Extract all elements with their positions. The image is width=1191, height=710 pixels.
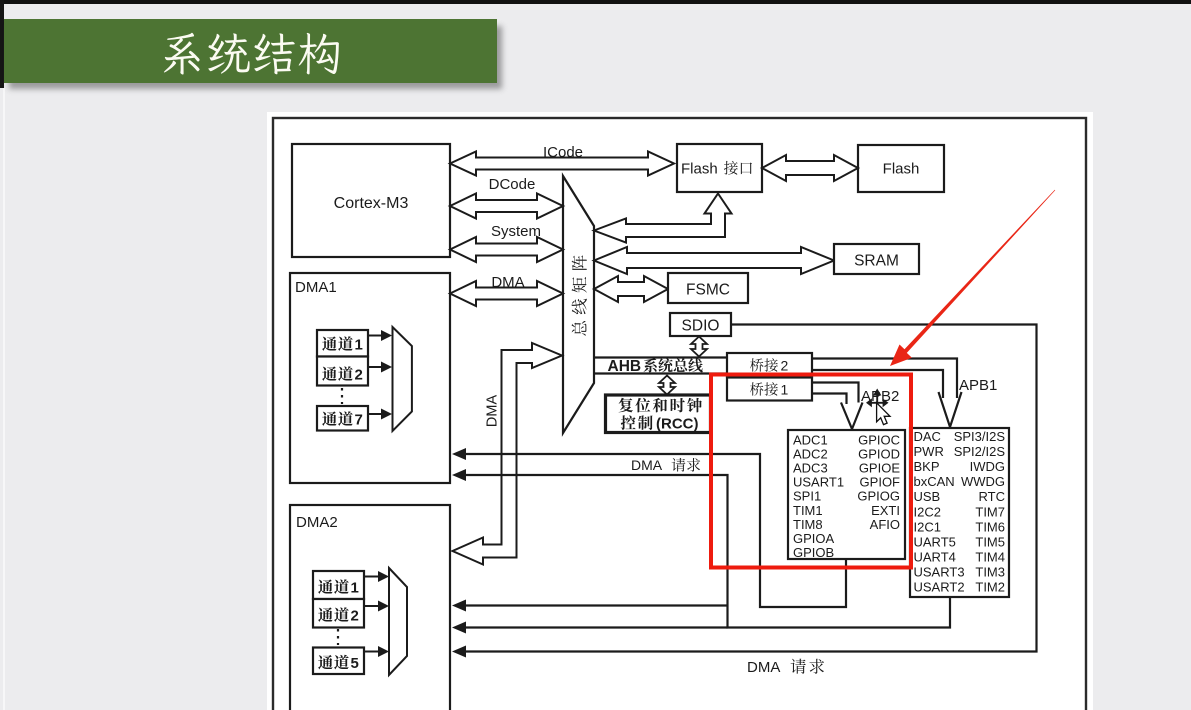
block SRAM: [834, 244, 919, 274]
wire channel arrow: [364, 576, 378, 578]
svg-text:TIM4: TIM4: [975, 549, 1005, 564]
svg-text:PWR: PWR: [914, 444, 944, 459]
arrowhead into DMA2 line 2: [452, 622, 466, 634]
svg-text:UART5: UART5: [914, 534, 956, 549]
label 通道1: [318, 579, 333, 593]
block DMA1: [290, 273, 450, 483]
arrow matrix-FSMC: [594, 276, 668, 302]
wire 桥接2-APB1 outer: [812, 359, 957, 399]
svg-text:TIM1: TIM1: [793, 503, 823, 518]
svg-text:GPIOA: GPIOA: [793, 531, 835, 546]
block APB1 peripherals: [910, 428, 1009, 597]
arrowhead into DMA1 line B: [452, 469, 466, 481]
arrowhead APB2 V: [841, 403, 863, 430]
move icon 4-way: [869, 394, 887, 413]
diagram outer frame: [273, 118, 1086, 710]
wire channel arrow: [364, 605, 378, 607]
svg-text:1: 1: [781, 382, 789, 398]
block DMA2: [290, 505, 450, 710]
svg-text:GPIOG: GPIOG: [857, 489, 900, 504]
svg-text:TIM6: TIM6: [975, 519, 1005, 534]
arrow DMA: [450, 281, 563, 306]
wire 桥接1-APB2 inner: [812, 394, 847, 405]
title banner: [4, 19, 497, 83]
svg-text:GPIOC: GPIOC: [858, 433, 900, 448]
svg-text:TIM7: TIM7: [975, 504, 1005, 519]
wire channel arrow: [364, 651, 378, 653]
svg-text:ADC3: ADC3: [793, 461, 828, 476]
arrow AHB-RCC updown: [659, 376, 675, 395]
svg-text:System: System: [491, 223, 541, 240]
wire AHB bus lower line: [594, 372, 727, 374]
svg-text:TIM8: TIM8: [793, 517, 823, 532]
svg-text:DMA: DMA: [631, 457, 663, 473]
dotted line DMA1 channels: [341, 388, 343, 404]
svg-text:2: 2: [781, 358, 789, 374]
wire AHB bus upper line: [594, 356, 727, 358]
svg-text:Flash: Flash: [681, 161, 718, 178]
svg-text:SPI1: SPI1: [793, 489, 821, 504]
arrowhead into DMA2 bottom: [452, 646, 466, 658]
svg-text:AFIO: AFIO: [870, 517, 900, 532]
block 复位和时钟控制(RCC): [606, 395, 711, 433]
arrow SDIO-AHB updown: [691, 337, 707, 357]
svg-text:SPI3/I2S: SPI3/I2S: [954, 429, 1006, 444]
wire 桥接1-APB2 outer: [812, 383, 859, 403]
bus matrix trapezoid 总线矩阵: [563, 176, 594, 433]
arrowhead into DMA2 line 1: [452, 600, 466, 612]
svg-text:2: 2: [351, 608, 359, 625]
arrow Flash接口-Flash: [762, 155, 858, 181]
label 控制(RCC): [621, 415, 636, 430]
svg-text:TIM3: TIM3: [975, 564, 1005, 579]
svg-text:DMA1: DMA1: [295, 279, 337, 296]
block DMA1 channel 通道7: [317, 406, 368, 431]
svg-text:TIM5: TIM5: [975, 534, 1005, 549]
svg-text:WWDG: WWDG: [961, 474, 1005, 489]
svg-text:Flash: Flash: [883, 161, 920, 178]
title 系统结构: [164, 33, 200, 75]
svg-text:1: 1: [351, 580, 359, 597]
arrow ICode: [450, 152, 674, 176]
svg-text:USART3: USART3: [914, 564, 965, 579]
DMA1 mux trapezoid: [393, 327, 412, 431]
arrow matrix-Flash接口 L-shaped: [594, 194, 732, 243]
svg-text:DAC: DAC: [914, 429, 941, 444]
block APB2 peripherals: [788, 430, 905, 559]
wire channel arrow: [368, 335, 381, 337]
block DMA1 channel 通道1: [317, 330, 368, 357]
svg-text:7: 7: [355, 412, 363, 429]
top dark edge strip: [0, 0, 1191, 4]
svg-text:FSMC: FSMC: [686, 282, 730, 299]
block DMA2 channel 通道5: [313, 648, 364, 675]
arrow DMA wide path matrix-DMA2: [453, 343, 563, 565]
arrowhead APB1 V: [939, 392, 962, 427]
svg-text:5: 5: [351, 655, 359, 672]
svg-text:DMA: DMA: [485, 395, 501, 428]
block DMA2 channel 通道2: [313, 599, 364, 628]
svg-text:I2C1: I2C1: [914, 519, 941, 534]
svg-text:ICode: ICode: [543, 144, 583, 161]
svg-text:I2C2: I2C2: [914, 504, 941, 519]
label 桥接1: [750, 382, 764, 395]
svg-text:TIM2: TIM2: [975, 580, 1005, 595]
svg-text:DMA2: DMA2: [296, 514, 338, 531]
red annotation arrow: [890, 190, 1055, 366]
svg-text:AHB: AHB: [608, 358, 642, 375]
svg-text:USART2: USART2: [914, 580, 965, 595]
block 桥接2: [727, 353, 812, 377]
svg-text:SRAM: SRAM: [854, 253, 899, 270]
svg-text:2: 2: [355, 367, 363, 384]
wire 桥接2-APB1 inner: [812, 370, 943, 398]
label 总线矩阵 vertical: [572, 255, 587, 335]
svg-text:UART4: UART4: [914, 549, 956, 564]
block Flash 接口: [677, 144, 762, 192]
svg-text:USART1: USART1: [793, 475, 844, 490]
left page seam: [3, 88, 5, 710]
wire SDIO loop right-down-bottom: [466, 325, 1037, 652]
wire channel arrow: [368, 413, 381, 415]
wire DMA1 request line B: [466, 475, 950, 628]
svg-text:RTC: RTC: [979, 489, 1005, 504]
svg-text:DMA: DMA: [491, 274, 524, 291]
DMA2 mux trapezoid: [389, 568, 407, 675]
label 通道2: [322, 366, 337, 380]
mouse cursor: [877, 403, 890, 425]
svg-text:GPIOE: GPIOE: [859, 461, 901, 476]
wire channel arrow: [368, 366, 381, 368]
svg-text:BKP: BKP: [914, 459, 940, 474]
title banner shadow: [9, 26, 502, 89]
svg-text:IWDG: IWDG: [970, 459, 1005, 474]
block SDIO: [670, 313, 731, 336]
arrowhead into DMA1 line A: [452, 448, 466, 460]
svg-text:bxCAN: bxCAN: [914, 474, 955, 489]
label 复位和时钟: [619, 398, 633, 413]
block DMA2 channel 通道1: [313, 571, 364, 599]
svg-text:GPIOF: GPIOF: [860, 475, 901, 490]
block 桥接1: [727, 378, 812, 401]
red highlight rectangle: [711, 375, 911, 568]
arrow DCode: [450, 194, 563, 219]
label 桥接2: [750, 358, 764, 371]
svg-text:APB1: APB1: [959, 377, 997, 394]
svg-text:DMA: DMA: [747, 659, 780, 676]
svg-text:ADC1: ADC1: [793, 433, 828, 448]
slide white area: [267, 112, 1093, 710]
svg-text:GPIOB: GPIOB: [793, 545, 834, 560]
label 通道7: [322, 411, 337, 425]
svg-text:GPIOD: GPIOD: [858, 447, 900, 462]
label 通道5: [318, 655, 333, 669]
svg-text:ADC2: ADC2: [793, 447, 828, 462]
svg-text:Cortex-M3: Cortex-M3: [334, 195, 409, 212]
label 通道1: [322, 336, 337, 350]
svg-text:USB: USB: [914, 489, 941, 504]
block DMA1 channel 通道2: [317, 357, 368, 386]
svg-text:SPI2/I2S: SPI2/I2S: [954, 444, 1006, 459]
left dark edge strip: [0, 0, 4, 88]
wire DMA1 request line A: [466, 454, 846, 607]
wire DMA2 request line 2: [466, 626, 728, 628]
svg-text:EXTI: EXTI: [871, 503, 900, 518]
svg-text:SDIO: SDIO: [682, 318, 720, 335]
arrow System: [450, 237, 563, 262]
label 通道2: [318, 607, 333, 621]
block Cortex-M3: [292, 144, 450, 257]
block Flash: [858, 145, 944, 192]
svg-text:(RCC): (RCC): [656, 416, 699, 433]
block FSMC: [668, 273, 748, 303]
dotted line DMA2 channels: [337, 629, 339, 645]
arrow matrix-SRAM: [594, 247, 834, 274]
svg-text:1: 1: [355, 337, 363, 354]
wire DMA2 request line 1: [466, 604, 728, 606]
svg-text:DCode: DCode: [489, 176, 536, 193]
